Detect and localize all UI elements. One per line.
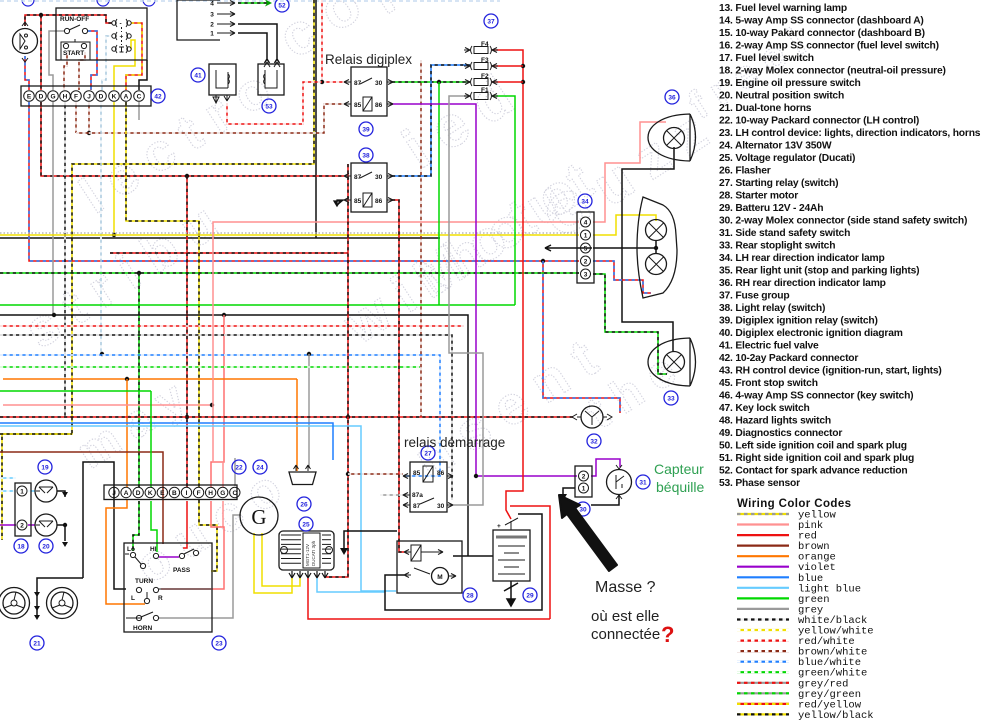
wire violet to conn18 pin2 [0, 524, 16, 526]
color code red/white [737, 636, 855, 648]
wire orange to flasher [296, 379, 298, 471]
connector 34 pin 1 [581, 230, 591, 240]
side stand switch 31 [607, 465, 632, 499]
wire yellow K down [113, 102, 115, 235]
wire black y315 [0, 315, 468, 556]
svg-text:26: 26 [300, 501, 308, 508]
wire green/black relay39 pin30 to fuse F2 [392, 81, 470, 83]
connector 34 pin 3 [581, 269, 591, 279]
svg-text:G: G [251, 505, 266, 529]
svg-text:17. Fuel level switch: 17. Fuel level switch [719, 53, 814, 64]
ground arrow conn30 [559, 494, 567, 501]
junction [541, 259, 545, 263]
svg-text:46. 4-way Amp SS connector (ke: 46. 4-way Amp SS connector (key switch) [719, 391, 913, 402]
svg-text:A: A [124, 490, 129, 497]
label circled 41 [191, 68, 205, 82]
svg-text:50. Left side ignition coil an: 50. Left side ignition coil and spark pl… [719, 441, 907, 452]
wire brown J down [88, 102, 90, 133]
relay 39 digiplex ignition relay [344, 67, 393, 116]
color code brown/white [737, 647, 867, 659]
neutral switch 20 [35, 514, 57, 536]
svg-text:52. Contact for spark advance: 52. Contact for spark advance reduction [719, 466, 907, 477]
label circled 31 [636, 475, 650, 489]
svg-text:39: 39 [362, 126, 370, 133]
wire brown/white to relay39 pin85 [76, 104, 344, 133]
wire salmon H to turn R [161, 501, 224, 589]
arrows switches [62, 492, 68, 547]
label circled 36 [665, 90, 679, 104]
svg-text:-: - [120, 21, 122, 28]
svg-text:2: 2 [20, 523, 24, 530]
wire red/white y326 [0, 325, 464, 327]
connector 22 pin B [169, 487, 179, 497]
connector 42 pin E [24, 91, 35, 102]
wire orange conn22A to turn common [106, 500, 145, 604]
connector 42 pin G [48, 91, 59, 102]
svg-text:18. 2-way Molex connector (neu: 18. 2-way Molex connector (neutral-oil p… [719, 66, 946, 77]
wire red/black y253 [110, 252, 348, 254]
connector 34 pin 5 [581, 243, 591, 253]
rear stoplight lamp 33 [648, 338, 696, 386]
label circled 28 [463, 588, 477, 602]
wire red/black to pin D [40, 15, 42, 90]
svg-text:36. RH rear direction indicato: 36. RH rear direction indicator lamp [719, 278, 886, 289]
svg-text:26. Flasher: 26. Flasher [719, 166, 771, 177]
svg-text:22. 10-way Packard connector (: 22. 10-way Packard connector (LH control… [719, 116, 919, 127]
svg-text:53. Phase sensor: 53. Phase sensor [719, 478, 800, 489]
svg-text:22: 22 [235, 464, 243, 471]
svg-text:21: 21 [33, 640, 41, 647]
svg-text:Relais digiplex: Relais digiplex [325, 52, 412, 67]
svg-text:32: 32 [590, 438, 598, 445]
connector 18 strip [15, 483, 31, 536]
svg-text:21. Dual-tone horns: 21. Dual-tone horns [719, 103, 812, 114]
connector 22 pin G [218, 487, 228, 497]
junction [185, 174, 189, 178]
svg-text:41. Electric fuel valve: 41. Electric fuel valve [719, 341, 819, 352]
junction [52, 313, 56, 317]
wire grey conn22 C up [234, 458, 236, 486]
svg-text:I: I [186, 490, 188, 497]
wire light blue dashed to conn18 pin1 [0, 477, 16, 479]
wire grey horn row to alternator [158, 515, 241, 618]
phase sensor 53 [258, 62, 284, 95]
svg-text:24: 24 [256, 464, 264, 471]
svg-text:2: 2 [210, 22, 214, 29]
wire blue relay38 pin30 to fuse F3 [392, 65, 470, 176]
svg-text:K: K [112, 94, 117, 101]
wire pink to connector34 pin4 [213, 222, 579, 405]
wire yellow/black main run [2, 0, 314, 540]
connector 34 pin 2 [581, 256, 591, 266]
wire green/black to contact52 [238, 2, 270, 4]
wire lightblue/white D2 down [100, 102, 102, 354]
wire green/white y367 [0, 366, 420, 368]
voltage regulator 25 [279, 531, 334, 570]
wire grey dotted y233 [0, 232, 578, 234]
svg-text:19. Engine oil pressure switch: 19. Engine oil pressure switch [719, 78, 861, 89]
label circled 24 [253, 460, 267, 474]
color code grey [737, 604, 823, 616]
svg-text:16. 2-way Amp SS connector (fu: 16. 2-way Amp SS connector (fuel level s… [719, 41, 939, 52]
svg-text:1: 1 [582, 486, 586, 493]
svg-text:M: M [437, 574, 442, 581]
svg-text:30: 30 [579, 506, 587, 513]
svg-text:DUCATI 3ph: DUCATI 3ph [311, 540, 316, 566]
svg-text:49. Diagnostics connector: 49. Diagnostics connector [719, 428, 842, 439]
color code orange [737, 552, 836, 564]
svg-text:23: 23 [215, 640, 223, 647]
rear light unit 35 [637, 197, 677, 298]
lighting plug symbols [112, 19, 131, 28]
wire blue/white y354 to relay27 pin85 [0, 355, 440, 476]
top edge cut-off circled labels [22, 0, 155, 6]
svg-text:85: 85 [413, 470, 421, 477]
junction [346, 415, 350, 419]
color code pink [737, 520, 823, 532]
wire grey G down [52, 102, 54, 315]
svg-text:TURN: TURN [135, 578, 153, 585]
digiplex pin 4 [210, 1, 235, 8]
svg-text:87: 87 [413, 503, 421, 510]
svg-text:HI: HI [150, 546, 157, 553]
svg-text:K: K [148, 490, 153, 497]
svg-text:23. LH control device: lights,: 23. LH control device: lights, direction… [719, 128, 981, 139]
wire orange to conn22 A [126, 379, 128, 487]
svg-text:béquille: béquille [656, 479, 704, 495]
fuse F3 [464, 57, 498, 70]
ground arrow starter [340, 548, 348, 555]
svg-text:Lo: Lo [127, 546, 135, 553]
wire grey/white to relay27 pin87 [380, 494, 403, 496]
svg-text:29: 29 [526, 592, 534, 599]
wire green main y305 [0, 304, 515, 306]
license plate lamp 32 [572, 406, 612, 428]
wire red fuse F3 [492, 65, 523, 67]
wire red fuse F2 [492, 81, 523, 83]
junction [320, 80, 324, 84]
wire red I to PASS [183, 501, 187, 548]
wire black digiplex 1 to sensor53 [238, 33, 270, 63]
svg-text:24. Alternator 13V 350W: 24. Alternator 13V 350W [719, 141, 832, 152]
connector 34 strip [577, 212, 594, 283]
label circled 19 [38, 460, 52, 474]
svg-text:D: D [136, 490, 141, 497]
svg-text:H: H [63, 94, 68, 101]
svg-text:1: 1 [210, 31, 214, 38]
svg-text:1: 1 [20, 489, 24, 496]
svg-text:41: 41 [194, 72, 202, 79]
svg-text:27. Starting relay (switch): 27. Starting relay (switch) [719, 178, 838, 189]
violet pass link [159, 556, 179, 558]
wire switch20 out [57, 525, 65, 541]
wire red/black D to relay38 [41, 102, 344, 176]
svg-text:43. RH control device (ignitio: 43. RH control device (ignition-run, sta… [719, 366, 942, 377]
connector 18 pin 2 [17, 520, 27, 530]
junction [346, 472, 350, 476]
svg-text:A: A [124, 94, 129, 101]
wire orange main y379 [3, 378, 297, 380]
wire violet relay39 pin86 to conn30 [392, 104, 577, 476]
wire white/black y335 to relay27 pin30 [0, 335, 452, 500]
wire black digiplex 2 to sensor53 [238, 24, 280, 63]
connector 18 pin 1 [17, 486, 27, 496]
wire light blue y426 to starter [0, 426, 396, 591]
wire conn18 to switch20 [28, 524, 35, 526]
wire pink to lamp36 [593, 122, 666, 222]
color code yellow/black [737, 710, 874, 721]
wire conn18 to switch19 [28, 490, 35, 492]
svg-text:3: 3 [210, 12, 214, 19]
connector 22 pin H [205, 487, 215, 497]
wire grey to flasher [308, 354, 310, 468]
connector 22 pin E [157, 487, 167, 497]
junction [185, 415, 189, 419]
wire black to rear light lower [655, 240, 657, 254]
svg-text:47. Key lock switch: 47. Key lock switch [719, 403, 810, 414]
wire red/black feed to plug [25, 15, 112, 26]
connector 42 pin D [96, 91, 107, 102]
wire brown start to pin H [64, 52, 67, 90]
svg-text:MGT1-12V: MGT1-12V [305, 544, 310, 566]
connector 22 pin C [230, 487, 240, 497]
wire brown F down [75, 102, 77, 133]
wire black horizontal y238 [0, 0, 440, 238]
wire yellow to rear light upper [593, 215, 656, 235]
svg-text:37: 37 [487, 18, 495, 25]
svg-text:34: 34 [581, 198, 589, 205]
RH control device 43 box [56, 8, 147, 60]
color code light blue [737, 583, 861, 595]
svg-text:25: 25 [302, 521, 310, 528]
svg-text:3: 3 [584, 271, 588, 278]
label circled 52 [275, 0, 289, 12]
label circled 34 [578, 194, 592, 208]
label circled 26 [297, 497, 311, 511]
color code yellow [737, 510, 837, 522]
svg-text:19: 19 [41, 464, 49, 471]
wire red/blue E to connector34 pin2 [29, 102, 579, 261]
wire stub2 [0, 490, 16, 492]
battery negative slash and arrow [504, 583, 518, 606]
digiplex pin 2 [210, 22, 235, 29]
svg-text:34. LH rear direction indicato: 34. LH rear direction indicator lamp [719, 253, 885, 264]
svg-text:42: 42 [154, 93, 162, 100]
color code red [737, 531, 817, 543]
wire yellow alternator to regulator b [262, 533, 300, 586]
svg-text:53: 53 [265, 103, 273, 110]
label circled 23 [212, 636, 226, 650]
svg-text:+: + [120, 34, 124, 41]
front stop switch 45 [13, 22, 38, 62]
color code grey/green [737, 689, 861, 701]
wire red fuse F4 to battery+ [492, 50, 523, 519]
color code yellow/white [737, 626, 874, 638]
svg-text:J: J [87, 94, 91, 101]
wire brown/white vertical x421 [420, 60, 422, 417]
horn arrows [34, 592, 40, 620]
wire black starter to battery [453, 555, 493, 557]
wire yellow main to connector34 pin1 [0, 234, 579, 236]
svg-text:F: F [74, 94, 78, 101]
svg-text:45. Front stop switch: 45. Front stop switch [719, 378, 818, 389]
svg-text:52: 52 [278, 2, 286, 9]
wire yellow/black F to switchbox [199, 500, 217, 571]
wire green y391 [0, 390, 151, 392]
wire black starter ground loop [385, 514, 542, 610]
wire red/black vertical x187 to conn22 I [186, 176, 188, 487]
svg-text:4: 4 [210, 1, 214, 8]
svg-text:C: C [137, 94, 142, 101]
wire yellow alternator to regulator a [254, 533, 292, 593]
junction [63, 523, 67, 527]
wire black starter to ground stub [344, 531, 397, 549]
svg-text:30: 30 [437, 503, 445, 510]
wire top-edge light blue dashed [0, 0, 500, 2]
ground relay38 [334, 200, 344, 206]
connector 22 strip [104, 485, 237, 500]
digiplex pin 3 [210, 12, 235, 19]
label circled 25 [299, 517, 313, 531]
starter motor 28 [397, 541, 462, 593]
connector 42 pin J [84, 91, 95, 102]
wire green/black to connector34 pin3 [0, 272, 579, 274]
svg-text:yellow/black: yellow/black [798, 710, 874, 721]
svg-text:86: 86 [375, 102, 383, 109]
color code red/yellow [737, 699, 862, 711]
connector 42 strip [21, 86, 151, 106]
svg-text:27: 27 [424, 450, 432, 457]
relay 38 light relay [344, 163, 393, 212]
RH rear direction indicator lamp 36 [648, 114, 696, 161]
connector 30 pin 1 [579, 483, 589, 493]
svg-text:Capteur: Capteur [654, 461, 704, 477]
battery 29 [493, 518, 530, 581]
svg-text:PASS: PASS [173, 567, 191, 574]
connector 22 pin D [133, 487, 143, 497]
label circled 21 [30, 636, 44, 650]
wire yellow/black left jog [0, 433, 72, 435]
svg-text:38: 38 [362, 152, 370, 159]
wire red/blue conn34 pin2 to stop lamp [593, 261, 651, 293]
color code grey/red [737, 678, 848, 690]
junction [307, 352, 311, 356]
svg-text:où est elle: où est elle [591, 608, 659, 625]
label circled 42 [151, 89, 165, 103]
electric fuel valve 41 [209, 64, 236, 103]
color code blue/white [737, 657, 861, 669]
label circled 30 [576, 502, 590, 516]
svg-text:39. Digiplex ignition relay (s: 39. Digiplex ignition relay (switch) [719, 316, 878, 327]
color code violet [737, 562, 836, 574]
wire grey run-off to pin G [49, 31, 64, 90]
svg-text:14. 5-way Amp SS connector (da: 14. 5-way Amp SS connector (dashboard A) [719, 16, 924, 27]
svg-text:36: 36 [668, 94, 676, 101]
svg-text:5: 5 [584, 245, 588, 252]
wire red/black y417 to lamp32 [0, 416, 573, 418]
color code white/black [737, 615, 867, 627]
svg-text:15. 10-way Pakard connector (d: 15. 10-way Pakard connector (dashboard B… [719, 28, 925, 39]
connector 42 pin C [134, 91, 145, 102]
label circled 39 [359, 122, 373, 136]
svg-text:1: 1 [584, 232, 588, 239]
wire salmon to conn22 H [211, 315, 224, 487]
svg-text:2: 2 [582, 474, 586, 481]
svg-text:48. Hazard lights switch: 48. Hazard lights switch [719, 416, 831, 427]
wire red/black x348 to regulator [325, 164, 348, 577]
wire yellow plug to pin K [114, 40, 135, 90]
fuse F1 [464, 87, 498, 100]
wire black conn30 pin1 ground [563, 488, 575, 494]
color code brown [737, 541, 830, 553]
wire pink to conn22 G [213, 405, 223, 487]
svg-text:42. 10-2ay Packard connector: 42. 10-2ay Packard connector [719, 353, 858, 364]
svg-text:4: 4 [584, 219, 588, 226]
connector 22 pin I [181, 487, 191, 497]
svg-text:E: E [160, 490, 165, 497]
svg-text:?: ? [661, 622, 674, 647]
wire blue y423 [0, 423, 333, 460]
svg-text:38. Light relay (switch): 38. Light relay (switch) [719, 303, 825, 314]
dual-tone horn 21 [47, 588, 78, 619]
junction [112, 233, 116, 237]
wire black switch31 bottom [591, 494, 619, 505]
wire grey C down [138, 102, 140, 120]
wire brown/white branch to relay27 pin87a [348, 473, 403, 475]
junction [137, 271, 141, 275]
svg-text:13. Fuel level warning lamp: 13. Fuel level warning lamp [719, 3, 847, 14]
svg-text:28: 28 [466, 592, 474, 599]
label circled 38 [359, 148, 373, 162]
svg-text:33: 33 [667, 395, 675, 402]
wire green K to HI [151, 501, 157, 552]
svg-text:37. Fuse group: 37. Fuse group [719, 291, 789, 302]
black wires inside box23 [125, 554, 211, 618]
connector 30 strip [575, 466, 592, 497]
connector 22 pin K [145, 487, 155, 497]
svg-text:31: 31 [639, 479, 647, 486]
wire red/black relay38 pin86 to starter solenoid [392, 200, 404, 552]
wire grey fuse F1 to relay27 pin30 [449, 96, 483, 505]
connector 42 pin K [109, 91, 120, 102]
wire green/black to lamp33 [593, 274, 667, 374]
svg-text:D: D [99, 94, 104, 101]
svg-text:2: 2 [584, 258, 588, 265]
junction [474, 474, 478, 478]
connector 42 pin H [60, 91, 71, 102]
label circled 33 [664, 391, 678, 405]
svg-text:C: C [232, 490, 237, 497]
dual-tone horn 21 [0, 588, 30, 619]
svg-text:D: D [39, 94, 44, 101]
connector 22 pin F [193, 487, 203, 497]
svg-text:G: G [50, 94, 55, 101]
svg-text:86: 86 [437, 470, 445, 477]
svg-text:30: 30 [375, 174, 383, 181]
flasher 26 [289, 465, 316, 485]
wire violet conn30 to switch31 [591, 459, 620, 476]
svg-text:START: START [63, 50, 84, 57]
wire red/yellow plug to pin A [126, 23, 142, 90]
junction [222, 313, 226, 317]
svg-text:85: 85 [354, 102, 362, 109]
wire pink y405 [3, 404, 213, 406]
svg-text:31. Side stand safety switch: 31. Side stand safety switch [719, 228, 850, 239]
junction [521, 64, 525, 68]
wire red regulator to battery bus [308, 578, 550, 619]
svg-text:R: R [158, 595, 163, 602]
junction [437, 80, 441, 84]
